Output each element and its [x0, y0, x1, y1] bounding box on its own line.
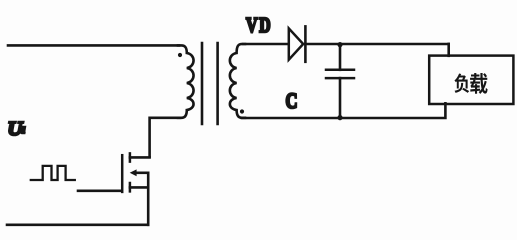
wire: secondary top to diode anode [243, 43, 288, 46]
transistor Q body bar [135, 172, 148, 175]
wire: source to bottom rail [147, 173, 150, 225]
transformer core line 1 [201, 43, 204, 124]
transistor Q (N-MOSFET) gate lead wire [78, 190, 121, 193]
load box [429, 56, 513, 104]
wire: bottom rail (left) [7, 224, 148, 227]
transistor Q source channel tick [129, 183, 132, 191]
capacitor C bottom plate [326, 77, 354, 80]
capacitor C top plate [326, 69, 354, 72]
transistor Q source bar [130, 186, 148, 189]
diode VD triangle [289, 28, 303, 59]
transformer T1 secondary winding [230, 44, 245, 118]
label 负 (load) [454, 74, 469, 93]
capacitor C bottom lead [339, 78, 342, 118]
wire: diode cathode to load (top rail right) [305, 43, 448, 46]
wire: input + rail (top left) [8, 44, 179, 47]
wire: top rail to load box [447, 44, 450, 56]
transistor Q drain bar [130, 156, 150, 159]
svg-text:d: d [21, 126, 26, 135]
diode VD cathode bar [304, 26, 307, 61]
transistor Q body arrow [130, 169, 137, 176]
primary polarity dot [178, 53, 182, 57]
transformer core line 2 [216, 43, 219, 124]
junction node (top, capacitor tap) [337, 42, 342, 47]
svg-text:C: C [286, 88, 298, 113]
capacitor C top lead [339, 44, 342, 70]
transistor Q gate bar [121, 155, 124, 192]
wire: bottom rail (right) [242, 103, 445, 118]
transformer T1 primary winding [178, 45, 194, 117]
junction node (bottom, capacitor tap) [337, 115, 342, 120]
gate drive pulse symbol [31, 166, 75, 180]
label 载 (load) [470, 73, 488, 94]
secondary polarity dot [240, 109, 244, 113]
svg-text:V: V [246, 13, 258, 37]
svg-text:D: D [259, 13, 270, 37]
transistor Q drain channel tick [129, 153, 132, 161]
wire: primary bottom to MOSFET drain [150, 118, 180, 157]
